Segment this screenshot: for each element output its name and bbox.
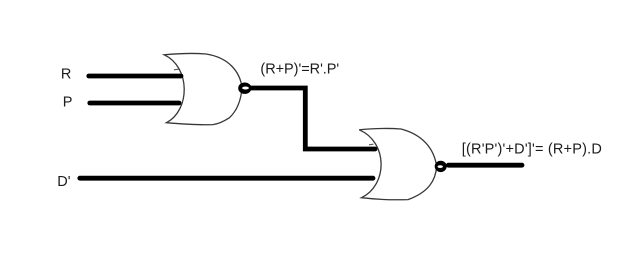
svg-text:[(R'P')'+D']'= (R+P).D: [(R'P')'+D']'= (R+P).D	[462, 142, 602, 158]
svg-text:D': D'	[57, 174, 70, 190]
svg-text:P: P	[63, 95, 73, 111]
svg-text:R: R	[61, 66, 71, 82]
svg-text:(R+P)'=R'.P': (R+P)'=R'.P'	[260, 62, 339, 78]
